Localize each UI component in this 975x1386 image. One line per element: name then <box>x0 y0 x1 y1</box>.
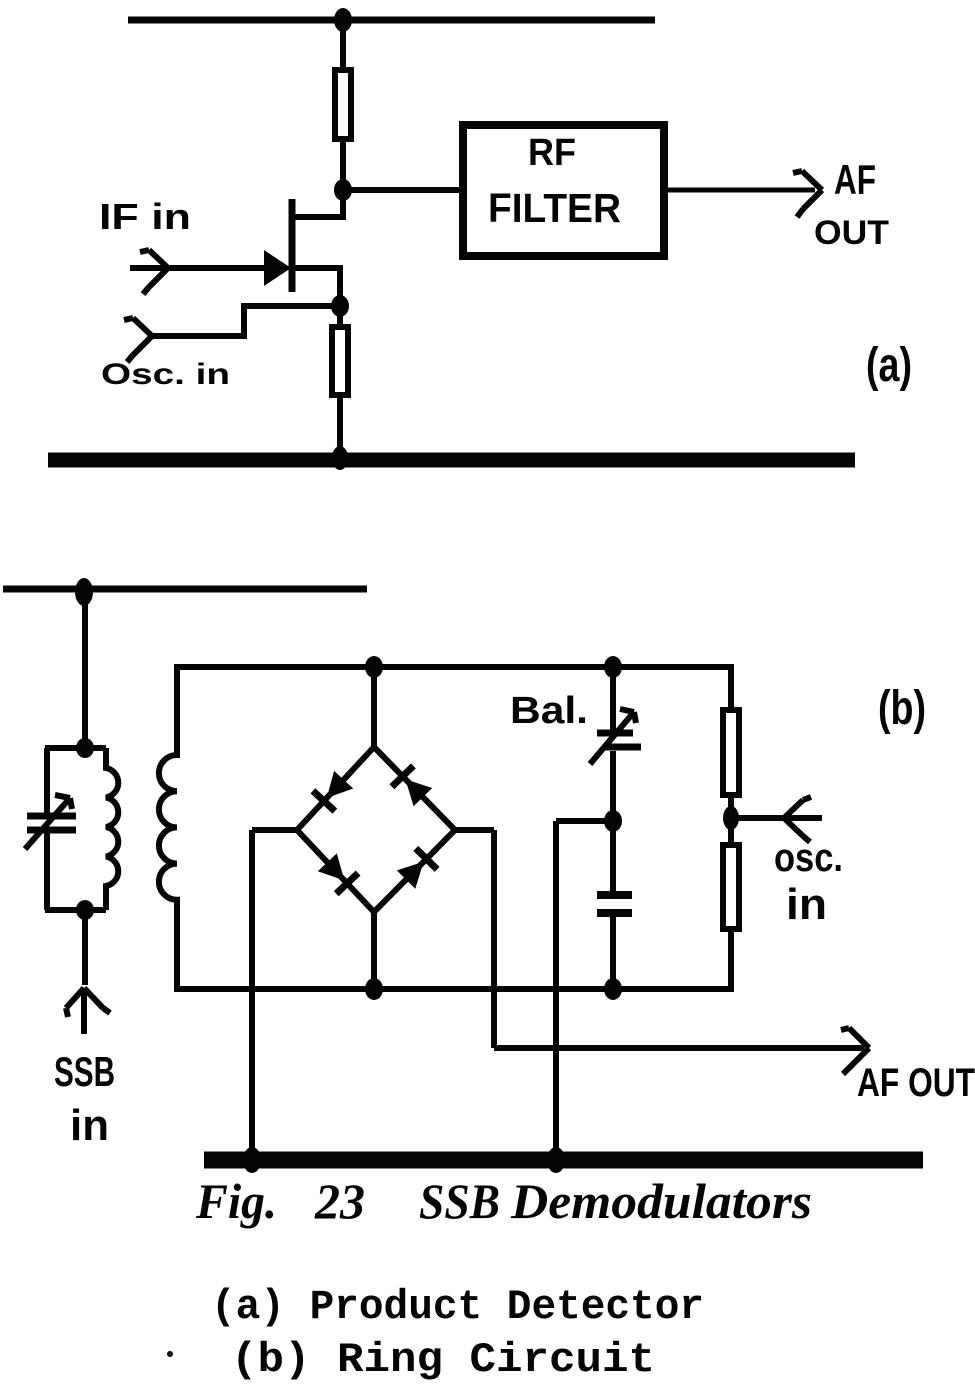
arrow AF out (a) <box>793 171 822 217</box>
svg-text:osc.: osc. <box>774 836 843 880</box>
wire AF out (b) <box>494 1045 864 1051</box>
svg-text:Osc. in: Osc. in <box>101 358 230 391</box>
wire ring loop bottom <box>174 986 734 992</box>
wire Osc input to source node <box>148 306 340 336</box>
node: rail/R1 junction <box>334 8 352 32</box>
svg-text:Bal.: Bal. <box>510 690 588 732</box>
wire loop top to diamond <box>371 667 377 749</box>
capacitor C1 variable, top plate <box>27 813 76 820</box>
node: tank top <box>76 738 94 758</box>
wire osc input <box>731 815 822 821</box>
wire left tap down to ground rail <box>249 830 255 1160</box>
capacitor C2 balance trimmer bottom plate <box>604 744 641 751</box>
caption Fig. 23 SSB Demodulators <box>195 1173 812 1229</box>
node: loop bottom / diamond <box>365 978 383 1000</box>
speck <box>167 1351 173 1357</box>
ground rail bottom (b) <box>204 1152 923 1169</box>
wire tank left lower <box>44 833 50 910</box>
svg-text:23: 23 <box>314 1173 365 1229</box>
resistor R2 <box>332 327 348 395</box>
wire rail to tank <box>82 589 88 748</box>
transformer T1 secondary coil <box>159 667 177 989</box>
diode D1 <box>313 771 353 811</box>
capacitor C2 adjustment arrow <box>590 709 636 764</box>
wire diamond edge bottom-right <box>374 830 455 912</box>
wire right tap down <box>491 830 497 1048</box>
node: osc junction <box>723 806 739 830</box>
diode D2 <box>392 766 432 806</box>
resistor R3 <box>723 710 739 795</box>
capacitor C3 top plate <box>597 891 632 899</box>
arrow Osc in <box>124 318 152 362</box>
svg-text:IF in: IF in <box>99 196 191 237</box>
transistor Q1 source lead <box>292 268 340 308</box>
transistor Q1 channel bar <box>289 199 296 292</box>
resistor R1 <box>335 70 351 139</box>
wire loop top to trimmer <box>610 667 616 730</box>
wire balance tap down to ground rail <box>553 821 559 1160</box>
RF filter block U1 <box>463 125 664 256</box>
wire diamond edge top-right <box>374 747 455 830</box>
svg-text:in: in <box>70 1101 109 1150</box>
wire balance node to C3 <box>610 821 616 892</box>
wire rail to R1 <box>340 20 346 70</box>
svg-text:(b): (b) <box>878 682 926 735</box>
wire diamond left tap <box>252 827 299 833</box>
svg-text:SSB: SSB <box>419 1173 500 1229</box>
node: drain junction <box>334 179 352 201</box>
wire drain node to RF filter <box>343 187 462 193</box>
node: loop bottom / C3 <box>604 978 622 1000</box>
node: left tap / rail <box>243 1147 261 1173</box>
node: tank bottom <box>76 900 94 920</box>
wire trimmer to balance node <box>610 751 616 824</box>
wire R1 to drain node <box>340 139 346 193</box>
svg-text:(b) Ring Circuit: (b) Ring Circuit <box>231 1336 655 1384</box>
arrow IF in <box>140 250 168 294</box>
svg-text:AF OUT: AF OUT <box>857 1061 975 1105</box>
wire source node to R2 <box>337 306 343 327</box>
wire tank left upper <box>44 748 50 813</box>
resistor R4 <box>723 845 739 929</box>
supply rail top (a) <box>128 17 655 24</box>
wire diamond bottom to loop <box>371 910 377 989</box>
svg-text:Demodulators: Demodulators <box>510 1173 812 1229</box>
wire ring loop top <box>174 664 734 670</box>
svg-text:OUT: OUT <box>814 214 889 252</box>
svg-text:FILTER: FILTER <box>488 185 621 231</box>
svg-text:(a) Product Detector: (a) Product Detector <box>211 1283 704 1331</box>
svg-text:in: in <box>786 880 827 929</box>
wire R2 to ground rail <box>337 395 343 460</box>
arrow osc in <box>784 797 811 842</box>
transistor Q1 gate arrow <box>264 250 291 286</box>
wire tank bottom bar <box>45 907 106 913</box>
node: balance tap / rail <box>547 1147 565 1173</box>
wire diamond edge bottom-left <box>297 830 374 912</box>
arrow AF out (b) <box>841 1028 869 1074</box>
node: loop top / balance branch <box>604 656 622 678</box>
capacitor C2 balance trimmer top plate <box>597 730 633 737</box>
wire RF filter to AF out <box>664 188 815 193</box>
svg-text:AF: AF <box>834 156 876 203</box>
wire balance node left <box>556 818 613 824</box>
wire loop right upper <box>728 667 734 710</box>
svg-text:(a): (a) <box>866 339 912 392</box>
node: source junction <box>331 295 349 317</box>
node: balance junction <box>604 810 622 832</box>
wire C3 to loop bottom <box>610 917 616 989</box>
wire tank top bar <box>45 745 106 751</box>
node: loop top / diamond feed <box>365 656 383 678</box>
svg-text:Fig.: Fig. <box>195 1173 277 1229</box>
inductor L1 (tank coil) <box>106 748 118 910</box>
capacitor C3 bottom plate <box>597 909 632 917</box>
wire diamond right tap <box>453 827 494 833</box>
node: rail/tank junction <box>75 578 93 606</box>
capacitor C1 adjustment arrow <box>25 795 72 849</box>
wire tank to SSB in <box>82 910 88 985</box>
wire loop right lower <box>728 929 734 989</box>
wire R3 to osc node <box>728 795 734 845</box>
diode D4 <box>397 848 437 888</box>
wire diamond edge top-left <box>297 747 374 830</box>
supply rail top (b) <box>3 586 367 593</box>
wire IF input to gate <box>130 265 266 271</box>
transistor Q1 drain lead <box>292 190 343 217</box>
node: R2/rail junction <box>332 446 348 470</box>
diode D3 <box>318 853 358 893</box>
ground rail bottom (a) <box>48 453 855 468</box>
svg-text:SSB: SSB <box>54 1048 115 1095</box>
capacitor C1 variable, bottom plate <box>27 827 76 834</box>
arrow SSB in <box>66 988 110 1034</box>
svg-text:RF: RF <box>528 132 576 174</box>
